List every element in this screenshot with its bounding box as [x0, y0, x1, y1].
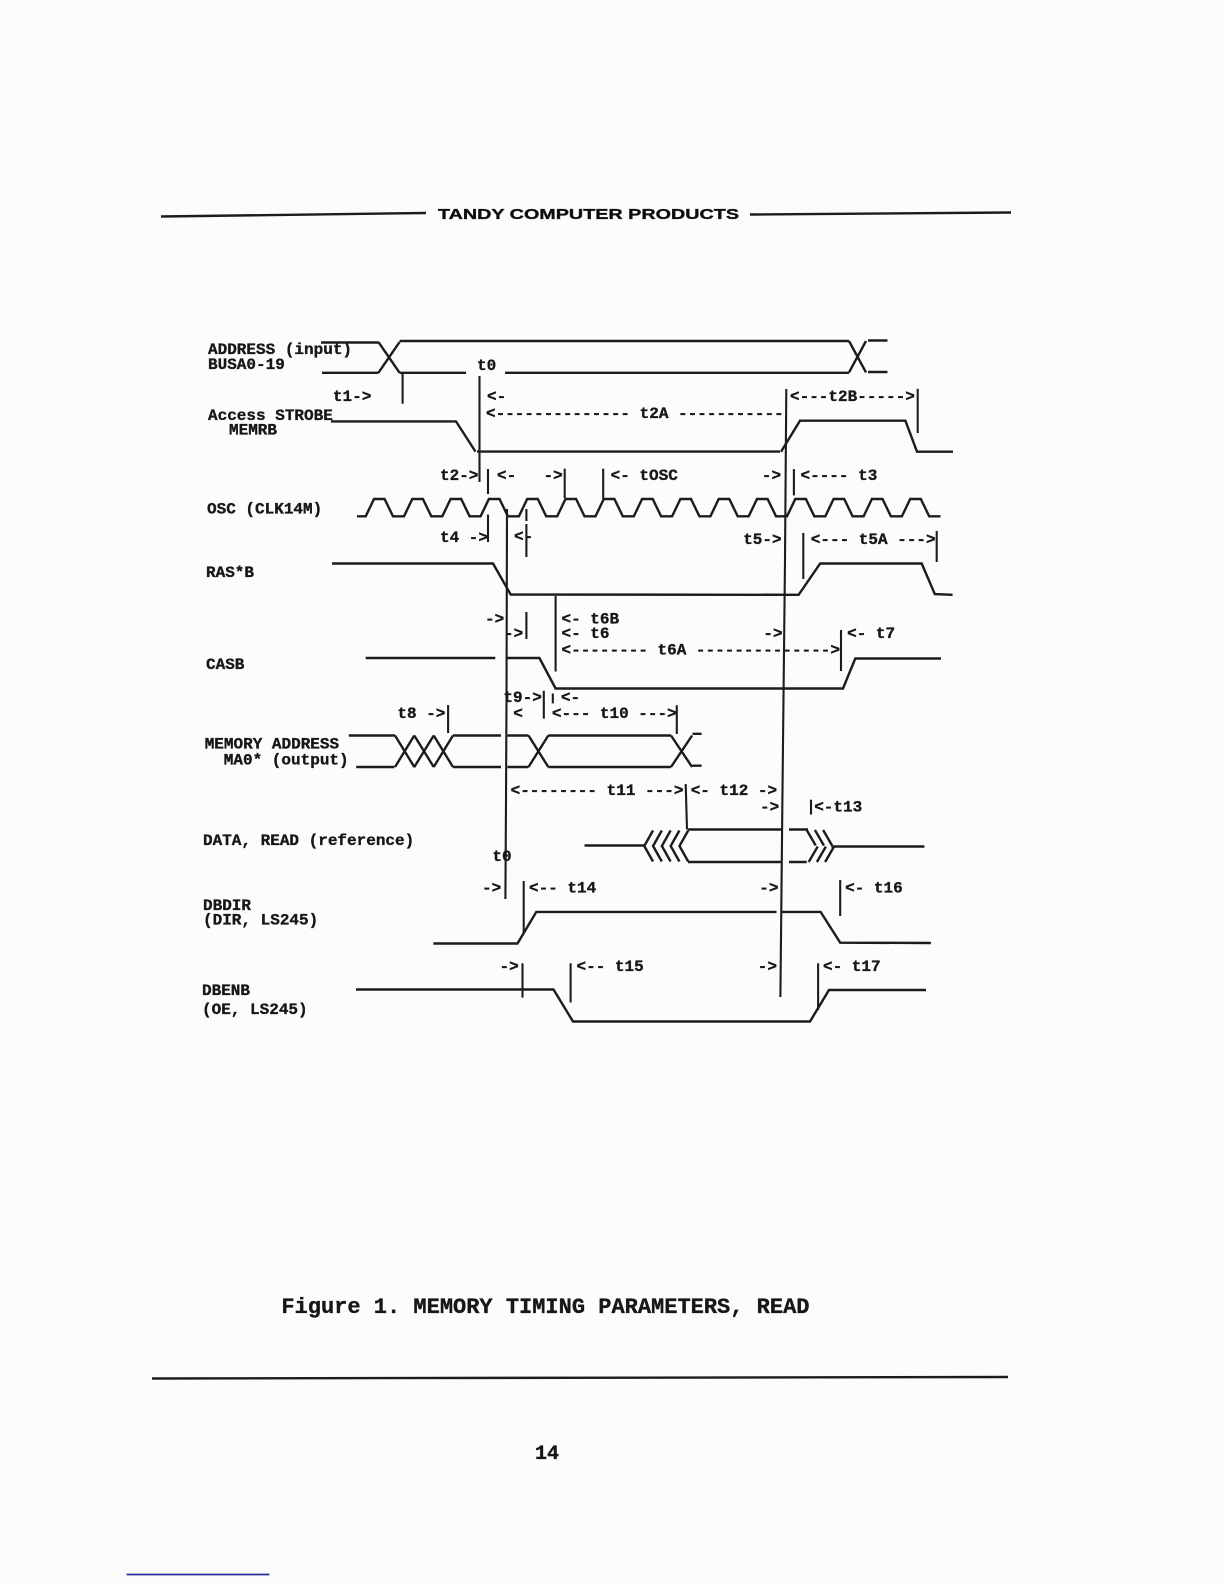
svg-text:->: ->	[504, 625, 523, 643]
svg-text:->: ->	[482, 880, 501, 898]
svg-text:->: ->	[758, 958, 777, 976]
footer rule	[152, 1377, 1008, 1379]
svg-text:<-------- t11 --->: <-------- t11 --->	[511, 782, 684, 800]
node DATA right transition hatching	[807, 830, 834, 862]
svg-text:(DIR, LS245): (DIR, LS245)	[203, 912, 318, 930]
node MEMRB t0 tall reference line	[780, 389, 786, 997]
node ADDRESS bus left crossover X	[378, 342, 399, 373]
decorative blue mark	[127, 1574, 270, 1576]
header rule left	[161, 213, 426, 217]
wire MEMRB waveform	[331, 421, 953, 452]
wire ADDRESS bus bottom line	[322, 372, 849, 374]
wire DATA line left	[585, 844, 645, 846]
svg-text:MEMRB: MEMRB	[229, 422, 277, 440]
svg-text:t0: t0	[492, 848, 511, 866]
svg-text:->: ->	[760, 799, 779, 817]
node t16 bar	[839, 880, 841, 916]
wire DATA line right	[831, 845, 924, 847]
wire DATA bus bottom line	[688, 861, 807, 863]
svg-text:TANDY COMPUTER PRODUCTS: TANDY COMPUTER PRODUCTS	[438, 207, 739, 223]
svg-text:t2->: t2->	[440, 467, 478, 485]
node MA bus right crossover	[671, 736, 692, 768]
wire RAS*B waveform	[332, 564, 953, 595]
svg-text:<-------- t6A -------------->: <-------- t6A -------------->	[562, 642, 840, 660]
node t9 right bar	[552, 694, 554, 704]
node tOSC label bar	[602, 469, 604, 499]
node t6 bar	[555, 596, 557, 672]
node t17 bar	[817, 963, 819, 1010]
svg-text:DATA, READ (reference): DATA, READ (reference)	[203, 832, 414, 850]
svg-text:OSC (CLK14M): OSC (CLK14M)	[207, 501, 322, 519]
svg-text:t8 ->: t8 ->	[397, 705, 445, 723]
svg-text:CASB: CASB	[206, 656, 245, 674]
node t14 left bar	[523, 881, 525, 933]
wire MA bus right tails	[693, 734, 702, 766]
svg-text:<- t17: <- t17	[823, 958, 881, 976]
svg-text:<-- t15: <-- t15	[577, 958, 644, 976]
svg-text:<-: <-	[497, 467, 516, 485]
svg-text:DBENB: DBENB	[202, 982, 250, 1000]
wire MA bus bottom line	[356, 766, 671, 768]
svg-text:<--- t5A --->: <--- t5A --->	[811, 531, 936, 549]
svg-text:<---- t3: <---- t3	[801, 467, 878, 485]
svg-text:->: ->	[500, 958, 519, 976]
svg-text:BUSA0-19: BUSA0-19	[208, 356, 285, 374]
node t5A right bar	[936, 531, 938, 562]
wire OSC clock waveform	[357, 499, 941, 516]
node t2 right bar	[487, 469, 489, 542]
svg-text:<: <	[513, 705, 523, 723]
svg-text:->: ->	[485, 611, 504, 629]
svg-text:->: ->	[763, 625, 782, 643]
wire DATA bus top line	[688, 828, 808, 830]
svg-text:->: ->	[544, 467, 563, 485]
node t0 reference line	[478, 376, 480, 482]
svg-text:t0: t0	[477, 357, 496, 375]
node t1 reference tick	[402, 374, 404, 404]
svg-text:t4 ->: t4 ->	[440, 529, 488, 547]
node t8 bar	[447, 705, 449, 733]
node t12 left bar	[686, 784, 687, 830]
svg-text:<-------------- t2A ----------: <-------------- t2A -----------	[486, 405, 784, 423]
svg-text:t1->: t1->	[333, 388, 371, 406]
svg-text:<- tOSC: <- tOSC	[611, 467, 679, 485]
svg-text:<- t12 ->: <- t12 ->	[691, 782, 777, 800]
node t15 right bar	[570, 963, 572, 1002]
svg-text:MA0* (output): MA0* (output)	[224, 752, 349, 770]
svg-text:RAS*B: RAS*B	[206, 564, 254, 582]
svg-text:Figure 1. MEMORY TIMING PARAME: Figure 1. MEMORY TIMING PARAMETERS, READ	[281, 1295, 809, 1320]
wire DBDIR waveform	[433, 912, 931, 944]
node ADDRESS bus right crossover X	[849, 341, 866, 372]
node t15 left bar	[521, 963, 523, 997]
wire MA bus top line	[349, 734, 671, 736]
node t10 right bar	[676, 705, 678, 734]
svg-text:(OE, LS245): (OE, LS245)	[202, 1001, 308, 1019]
svg-text:<---t2B----->: <---t2B----->	[790, 388, 915, 406]
node MA bus triple crossover	[395, 736, 453, 768]
svg-text:<-t13: <-t13	[814, 799, 862, 817]
svg-text:<-: <-	[514, 528, 533, 546]
node DATA left transition hatching	[644, 831, 688, 862]
svg-text:->: ->	[759, 880, 778, 898]
header rule right	[750, 213, 1011, 215]
wire ADDRESS bus right tails	[868, 341, 888, 373]
node t5A left bar	[802, 533, 804, 579]
node t6A right bar	[840, 630, 842, 671]
node t13 bar	[810, 800, 812, 815]
svg-text:->: ->	[762, 467, 781, 485]
node tOSC right bar	[564, 469, 566, 498]
svg-text:<- t6: <- t6	[562, 625, 610, 643]
wire ADDRESS bus top line	[321, 341, 849, 343]
wire CASB waveform	[366, 658, 941, 689]
svg-text:t5->: t5->	[743, 531, 781, 549]
wire DBENB waveform	[356, 990, 926, 1022]
node t3 bar	[793, 469, 795, 495]
svg-text:<-- t14: <-- t14	[529, 880, 597, 898]
node t4A dashed bar	[525, 509, 527, 639]
node t9 left bar	[543, 691, 545, 719]
svg-text:<-: <-	[487, 388, 506, 406]
svg-text:<- t16: <- t16	[845, 880, 903, 898]
svg-text:<--- t10 --->: <--- t10 --->	[552, 705, 677, 723]
node MA bus mid crossover	[529, 736, 549, 768]
node t2B right reference bar	[917, 389, 919, 433]
node long reference line at 506	[505, 509, 507, 899]
svg-text:14: 14	[535, 1443, 559, 1466]
svg-text:<- t7: <- t7	[847, 625, 895, 643]
